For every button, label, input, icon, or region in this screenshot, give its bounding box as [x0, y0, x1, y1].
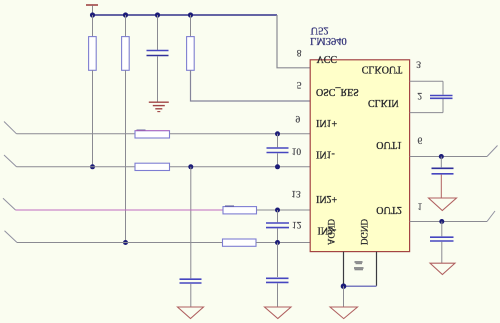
label remnant on R4	[137, 130, 146, 131]
wire OUT1 pin 6	[410, 156, 487, 158]
capacitor C5	[266, 278, 289, 282]
wire IN2- right segment to pin	[256, 242, 310, 244]
wire C3 to IN2- node	[277, 228, 279, 242]
node OUT1 cap tap	[439, 154, 444, 159]
resistor R6 (series IN2+)	[223, 207, 257, 214]
wire C8 to ground	[441, 242, 443, 263]
svg-text:VCC: VCC	[317, 53, 338, 64]
capacitor C2	[267, 148, 289, 153]
svg-text:1: 1	[418, 201, 423, 211]
node R1-wire2 junction	[90, 164, 95, 169]
svg-text:5: 5	[297, 79, 302, 89]
connector stub IN2- (off-page, left)	[5, 231, 18, 243]
svg-text:8: 8	[297, 47, 302, 57]
wire OUT2 node to C8	[441, 222, 443, 237]
svg-text:10: 10	[292, 145, 302, 155]
node OUT2 cap tap	[439, 219, 444, 224]
svg-text:2: 2	[417, 90, 422, 100]
wire junction to ground	[343, 286, 345, 307]
wire IN2- node down to C5	[277, 243, 279, 278]
wire C1 to ground	[157, 56, 159, 102]
svg-text:6: 6	[418, 135, 423, 145]
connector stub IN1+ (off-page, left)	[4, 122, 17, 134]
wire IN1+ node to C2	[277, 134, 279, 147]
wire DGND pin down	[376, 252, 378, 286]
node bus-C1	[155, 12, 160, 17]
wire C4 to ground	[190, 284, 192, 307]
label remnant on R6	[225, 205, 234, 206]
svg-text:AGND: AGND	[326, 219, 336, 245]
resistor R2	[122, 37, 130, 71]
node IN2+ cap tap	[275, 208, 280, 213]
wire IN1- node down to C4	[190, 167, 192, 278]
capacitor C1	[147, 51, 169, 56]
wire bus to C1	[157, 15, 159, 50]
wire from power bar to bus	[92, 6, 94, 16]
resistor R1	[89, 37, 97, 71]
wire IN2+ right segment to pin	[257, 209, 311, 211]
wire bus to R1	[92, 15, 94, 37]
wire R3 to OSC_RES pin	[191, 70, 311, 101]
wire bus to R2	[125, 15, 127, 37]
resistor R7 (series IN2-)	[223, 239, 257, 246]
node IN2- cap junction	[275, 240, 280, 245]
resistor R4 (series IN1+)	[135, 131, 170, 138]
resistor R5 (series IN1-)	[135, 163, 170, 170]
svg-text:IN1+: IN1+	[316, 117, 338, 128]
wire IN2- left segment	[17, 242, 223, 244]
svg-text:IN1-: IN1-	[316, 148, 335, 159]
wire IN1+ left segment	[17, 133, 136, 135]
capacitor C6	[430, 96, 453, 99]
connector stub OUT1 (off-page, right)	[487, 146, 498, 157]
node IN1- cap junction	[275, 164, 280, 169]
capacitor C3	[266, 223, 289, 228]
wire bus (top rail)	[93, 14, 278, 16]
ground (triangle) below C7	[429, 198, 457, 211]
resistor R3	[187, 37, 195, 71]
wire C2 to IN1- node	[277, 153, 279, 167]
connector stub IN1- (off-page, left)	[4, 155, 17, 167]
wire IN1- left segment	[17, 166, 136, 168]
wire IN1+ right segment to pin	[170, 133, 311, 135]
svg-text:12: 12	[292, 219, 302, 229]
wire CLKIN pin 2	[410, 112, 443, 114]
wire C6 to CLKIN	[442, 99, 444, 113]
wire IN2+ node to C3	[277, 210, 279, 222]
svg-text:3: 3	[416, 59, 421, 69]
wire AGND pin down	[343, 252, 345, 287]
svg-text:LM3940: LM3940	[310, 35, 347, 46]
node bus-R3	[188, 12, 193, 17]
wire IN2+ left segment (magenta)	[16, 209, 224, 211]
node AGND-DGND junction	[341, 283, 347, 289]
svg-text:9: 9	[296, 113, 301, 123]
IC U52 body	[310, 60, 409, 252]
wire bus to R3	[190, 15, 192, 37]
node IN1- drop junction	[188, 164, 193, 169]
capacitor C4	[180, 279, 202, 283]
svg-text:DGND: DGND	[359, 219, 369, 245]
svg-text:13: 13	[291, 188, 301, 198]
label R41 1k (flipped, tiny)	[354, 261, 364, 270]
connector stub OUT2 (off-page, right)	[487, 211, 495, 222]
node bus-R2	[123, 12, 128, 17]
capacitor C7	[432, 168, 454, 174]
wire IN1- right segment to pin	[170, 166, 311, 168]
node R2-wire4 junction	[123, 240, 128, 245]
wire CLKOUT pin 3	[410, 80, 443, 82]
svg-text:IN2+: IN2+	[316, 193, 338, 204]
wire DGND jog to AGND node	[344, 285, 377, 287]
wire bus corner to VCC pin 8	[277, 15, 310, 68]
wire R1 to IN1- net	[92, 70, 94, 167]
ground (3-bar) below C1	[149, 102, 169, 111]
svg-text:OSC_RES: OSC_RES	[316, 86, 359, 97]
wire R2 to IN2- net	[125, 70, 127, 242]
ground (triangle) below C4	[178, 307, 204, 319]
svg-text:OUT2: OUT2	[376, 204, 402, 215]
wire C7 to ground	[440, 175, 442, 198]
svg-text:CLKIN: CLKIN	[368, 97, 399, 108]
wire C5 to ground	[277, 283, 279, 307]
ground (triangle) below C5	[265, 307, 292, 319]
power bar VCC (flipped supply symbol)	[86, 4, 98, 6]
capacitor C8	[430, 237, 454, 241]
ground (triangle) below C8	[430, 263, 455, 274]
node IN1+ cap tap	[275, 131, 280, 136]
svg-text:U52: U52	[311, 25, 329, 36]
svg-text:CLKOUT: CLKOUT	[362, 64, 403, 75]
wire CLKOUT to C6	[442, 81, 444, 95]
wire OUT2 pin 1	[410, 221, 487, 223]
connector stub IN2+ (off-page, left)	[3, 198, 16, 210]
svg-text:OUT1: OUT1	[376, 139, 402, 150]
node bus-R1	[90, 12, 95, 17]
ground (triangle) below AGND	[330, 307, 358, 319]
wire OUT1 node to C7	[440, 157, 442, 168]
